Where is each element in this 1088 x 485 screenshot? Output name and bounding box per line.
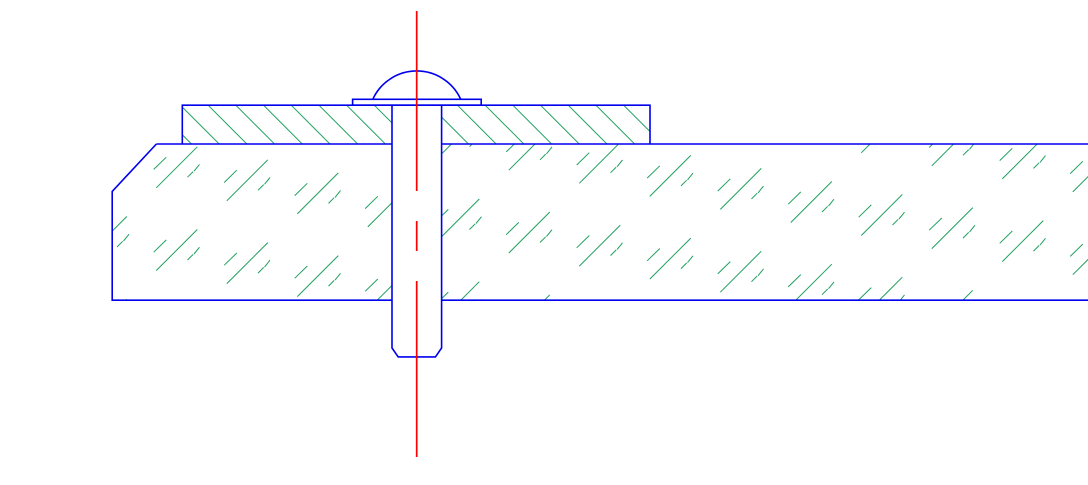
red centerline (dash-dot) — [416, 11, 418, 457]
slab top edge (right of hole) — [442, 143, 1088, 145]
hatch: upper plate section hatch (45 deg lines) — [152, 105, 662, 144]
plate outline (left, top, right edges) — [182, 105, 650, 144]
bolt dome head arc — [373, 71, 461, 99]
hatch: concrete slab hatch (AR-CONC style clusters) — [83, 103, 1088, 340]
slab chamfer, left edge and bottom edge — [112, 144, 392, 300]
slab bottom edge right of hole — [442, 299, 1088, 301]
bolt shank outline with chamfered tip — [392, 105, 442, 357]
slab top edge (left of hole) — [156, 143, 392, 145]
washer flange rectangle — [353, 99, 482, 105]
